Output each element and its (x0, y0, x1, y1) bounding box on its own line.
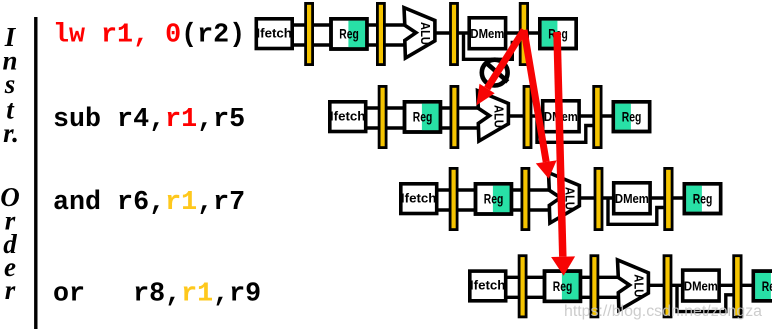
svg-text:https://blog.csdn.net/zongza: https://blog.csdn.net/zongza (564, 303, 762, 320)
svg-text:and r6,r1,r7: and r6,r1,r7 (53, 188, 245, 218)
svg-text:or r8,r1,r9: or r8,r1,r9 (53, 280, 261, 310)
svg-text:sub r4,r1,r5: sub r4,r1,r5 (53, 105, 245, 135)
svg-text:lw r1, 0(r2): lw r1, 0(r2) (53, 21, 245, 51)
svg-text:r: r (5, 275, 16, 305)
svg-text:r.: r. (3, 118, 19, 148)
